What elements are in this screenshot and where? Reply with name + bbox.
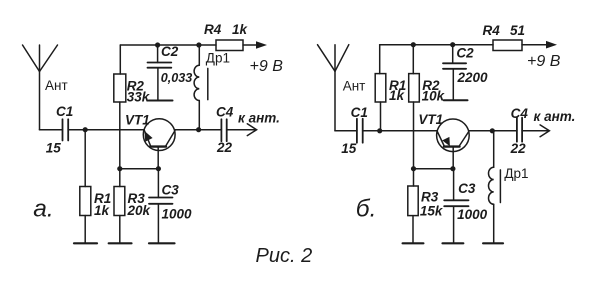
resistor R1 (right, 1k)	[379, 45, 381, 74]
+9V arrow (right)	[546, 41, 557, 49]
node: C1/R1 junction right	[377, 128, 382, 133]
choke Dr1 (right)	[493, 131, 495, 167]
capacitor C2 (right, 2200)	[452, 45, 454, 64]
svg-text:б.: б.	[356, 196, 377, 223]
capacitor C3 (right, 1000)	[453, 169, 455, 201]
ground under C3 right	[443, 242, 464, 244]
node: Dr1/rail junction left	[196, 42, 201, 47]
ground under R3 left	[109, 242, 132, 244]
svg-text:C1: C1	[56, 104, 73, 119]
wire base node right	[414, 168, 453, 170]
svg-text:1000: 1000	[162, 206, 193, 221]
resistor R4 (left, 1k)	[216, 40, 243, 51]
svg-text:Др1: Др1	[206, 50, 230, 65]
choke Dr1 (left)	[198, 45, 200, 65]
svg-text:C3: C3	[162, 182, 180, 197]
capacitor C4 (right, 22)	[516, 118, 518, 142]
svg-text:1k: 1k	[94, 203, 111, 218]
node: collector/Dr1 junction	[196, 127, 201, 132]
svg-text:C2: C2	[161, 44, 179, 59]
node: C2/rail junction left	[155, 42, 160, 47]
svg-text:R4: R4	[483, 23, 501, 38]
ground under R1 left	[74, 242, 97, 244]
node: R2/R3/base junction	[117, 166, 122, 171]
svg-text:Др1: Др1	[504, 166, 528, 181]
svg-text:2200: 2200	[457, 70, 489, 85]
svg-text:10k: 10k	[422, 88, 446, 103]
ground under C3 left	[149, 242, 175, 244]
svg-text:Ант: Ант	[343, 79, 366, 94]
node: base/C3 junction	[156, 166, 161, 171]
svg-text:1000: 1000	[457, 207, 488, 222]
svg-text:20k: 20k	[127, 203, 152, 218]
ground under Dr1 right	[483, 242, 503, 244]
svg-text:15: 15	[341, 141, 357, 156]
node: C2/rail junction right	[450, 42, 455, 47]
svg-text:1k: 1k	[389, 88, 406, 103]
svg-text:33k: 33k	[127, 90, 151, 105]
svg-text:C4: C4	[216, 105, 234, 120]
node: base/C3 junction right	[450, 166, 455, 171]
svg-text:R3: R3	[421, 190, 439, 205]
node: R2/R3 junction right	[411, 166, 416, 171]
svg-text:C3: C3	[458, 181, 476, 196]
capacitor C3 (left, 1000)	[157, 169, 159, 198]
node: R2/rail junction right	[411, 42, 416, 47]
resistor R2 (left, 33k)	[119, 45, 121, 74]
svg-text:а.: а.	[33, 196, 53, 223]
output arrow (left, open)	[247, 124, 256, 136]
resistor R3 (right, 15k)	[413, 169, 415, 186]
resistor R3 (left, 20k)	[119, 169, 121, 187]
svg-text:VT1: VT1	[125, 112, 150, 127]
svg-text:R4: R4	[204, 22, 222, 37]
svg-text:22: 22	[510, 141, 527, 156]
antenna W1 (right)	[334, 45, 336, 131]
output arrow (right, open)	[540, 125, 549, 137]
node: C1/R1 junction	[83, 127, 88, 132]
resistor R2 (right, 10k)	[412, 45, 414, 74]
svg-text:1k: 1k	[232, 22, 249, 37]
capacitor C1 (right, 15)	[356, 119, 358, 143]
capacitor C2 (left, 0.033)	[157, 45, 159, 63]
svg-text:+9 В: +9 В	[250, 58, 284, 75]
ground bar under C2 left	[149, 100, 173, 102]
svg-text:Ант: Ант	[45, 78, 68, 93]
wire base node	[120, 168, 159, 170]
capacitor C4 (left, 22)	[220, 119, 222, 141]
svg-text:15: 15	[46, 141, 62, 156]
svg-text:C4: C4	[511, 106, 529, 121]
svg-text:22: 22	[216, 140, 233, 155]
resistor R4 (right, 51)	[493, 40, 522, 51]
+9V arrow (left)	[256, 41, 267, 49]
capacitor C1 (left)	[62, 119, 64, 140]
wire antenna to C1	[40, 129, 63, 131]
wire C1 to transistor emitter	[68, 129, 144, 131]
wire C1 to transistor emitter (right)	[363, 130, 437, 132]
svg-text:0,033: 0,033	[161, 71, 193, 85]
svg-text:Рис. 2: Рис. 2	[256, 245, 313, 267]
svg-text:к ант.: к ант.	[534, 109, 576, 124]
svg-text:+9 В: +9 В	[527, 53, 561, 70]
ground under R3 right	[403, 242, 424, 244]
resistor R1 (left, 1k)	[84, 130, 86, 187]
svg-text:к ант.: к ант.	[238, 110, 280, 125]
node: collector/Dr1 junction right	[490, 128, 495, 133]
ground bar under C2 right	[444, 99, 468, 101]
collector wire to C4	[175, 129, 222, 131]
svg-text:15k: 15k	[420, 204, 444, 219]
wire antenna to C1 right	[335, 130, 357, 132]
top rail (right)	[380, 44, 493, 46]
svg-text:C1: C1	[351, 105, 368, 120]
transistor VT1 (right, PNP)	[437, 119, 470, 152]
antenna W1 (left)	[39, 45, 41, 130]
svg-text:51: 51	[510, 23, 525, 38]
collector wire to C4 right	[469, 130, 517, 132]
svg-text:C2: C2	[456, 45, 474, 60]
svg-text:VT1: VT1	[418, 112, 443, 127]
top rail (left)	[120, 44, 216, 46]
transistor VT1 (left, NPN)	[143, 119, 175, 151]
